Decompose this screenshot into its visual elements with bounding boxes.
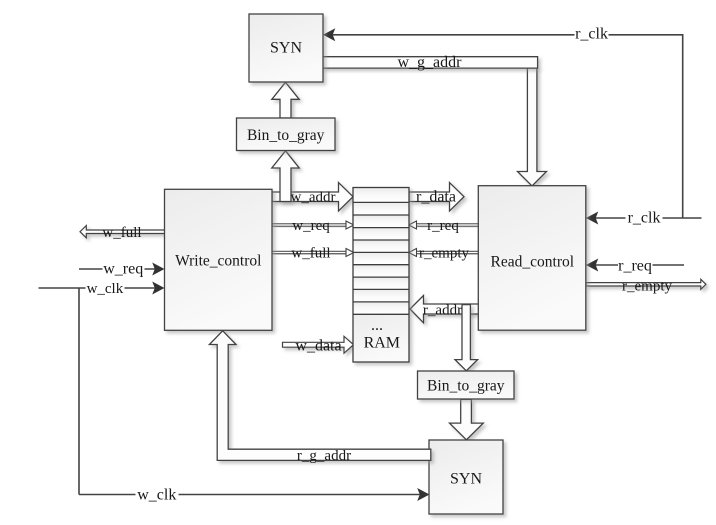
- wire r_req right (into Read_control): [594, 264, 685, 266]
- arrowhead w_clk into Write_control left edge: [152, 282, 164, 295]
- label w_clk (left, white backed): [86, 281, 125, 297]
- mini arrowhead w_req into RAM: [346, 221, 354, 229]
- svg-text:Bin_to_gray: Bin_to_gray: [427, 377, 505, 394]
- svg-text:r_data: r_data: [416, 189, 456, 206]
- mini arrowhead w_full into RAM: [346, 249, 354, 257]
- thin hollow arrow w_full (out of Write_control to left): [80, 226, 165, 238]
- label r_clk (right, white backed): [626, 210, 663, 227]
- wire r_clk top (into SYN): [331, 34, 702, 218]
- bus pipe w_g_addr horizontal segment (from SYN top): [322, 57, 538, 68]
- arrowhead w_req into Write_control left edge: [152, 263, 164, 276]
- bus pipe w_addr (Write_control to RAM): [272, 183, 353, 212]
- bus pipe r_addr (Read_control left into RAM): [410, 296, 479, 323]
- bus pipe w_g_addr vertical segment with arrow into Read_control: [518, 68, 547, 187]
- svg-text:r_req: r_req: [618, 257, 652, 274]
- block arrow up: Bin_to_gray(top) to SYN(top): [272, 82, 299, 118]
- bus pipe r_g_addr (up into Write_control, over bottom SYN): [209, 331, 430, 461]
- bus pipe branch down from r_addr to Bin_to_gray (bottom): [455, 305, 478, 371]
- block arrow Bin_to_gray(bottom) to SYN(bottom): [450, 399, 484, 440]
- thin hollow arrow r_empty (out of Read_control to right): [586, 279, 706, 289]
- svg-text:w_req: w_req: [103, 261, 143, 278]
- svg-text:Bin_to_gray: Bin_to_gray: [247, 127, 325, 144]
- block RAM (cell stack): [353, 188, 409, 363]
- svg-text:SYN: SYN: [270, 39, 302, 56]
- block Bin_to_gray (bottom): [418, 371, 515, 399]
- label w_req (left, white backed): [103, 261, 145, 278]
- wire w_req left (into Write_control): [79, 268, 157, 270]
- svg-text:r_addr: r_addr: [423, 303, 462, 319]
- svg-text:w_clk: w_clk: [137, 486, 176, 503]
- block arrow up: w_addr pipe to Bin_to_gray(top), drawn over pipe: [272, 151, 299, 202]
- svg-text:r_clk: r_clk: [575, 26, 608, 43]
- svg-text:Read_control: Read_control: [491, 253, 575, 270]
- label r_req (right, white backed): [618, 257, 653, 274]
- thin wire r_empty (Read_control to RAM): [417, 251, 480, 253]
- svg-text:r_clk: r_clk: [628, 210, 661, 227]
- svg-text:...: ...: [371, 317, 383, 334]
- svg-text:w_addr: w_addr: [291, 190, 336, 206]
- arrowhead w_clk into bottom SYN left edge: [417, 488, 429, 501]
- thin wire w_req (Write_control to RAM): [272, 224, 346, 226]
- arrowhead r_clk into SYN right edge: [323, 28, 335, 41]
- block Write_control: [165, 189, 273, 330]
- mini arrowhead r_empty into RAM: [409, 249, 417, 257]
- block Read_control: [478, 186, 586, 331]
- label w_clk (bottom, white backed): [136, 486, 179, 503]
- label r_clk (top, white backed): [575, 26, 609, 43]
- bus pipe r_data (RAM to right): [409, 183, 464, 212]
- block SYN (top): [249, 14, 323, 82]
- svg-text:w_data: w_data: [295, 338, 341, 355]
- svg-text:SYN: SYN: [450, 470, 482, 487]
- svg-text:w_clk: w_clk: [87, 281, 124, 297]
- svg-text:w_full: w_full: [291, 246, 330, 262]
- svg-text:w_full: w_full: [102, 225, 141, 241]
- mini arrowhead r_req into RAM: [409, 221, 417, 229]
- arrowhead r_req into Read_control right edge: [586, 259, 598, 272]
- svg-text:r_empty: r_empty: [419, 246, 469, 262]
- svg-text:w_req: w_req: [292, 218, 330, 234]
- svg-text:r_req: r_req: [427, 218, 459, 234]
- svg-text:RAM: RAM: [364, 334, 400, 351]
- svg-text:r_g_addr: r_g_addr: [297, 448, 351, 464]
- thin hollow arrow w_data (into RAM left): [283, 336, 354, 353]
- arrowhead r_clk into Read_control right edge: [586, 212, 598, 225]
- block SYN (bottom): [429, 440, 503, 514]
- svg-text:r_empty: r_empty: [622, 279, 672, 295]
- thin wire r_req (Read_control to RAM): [417, 224, 480, 226]
- thin wire w_full (Write_control to RAM): [272, 251, 346, 253]
- svg-text:w_g_addr: w_g_addr: [398, 54, 463, 71]
- block Bin_to_gray (top): [237, 118, 336, 151]
- wire w_clk left + branch down to bottom: [39, 288, 423, 495]
- svg-text:Write_control: Write_control: [175, 252, 261, 269]
